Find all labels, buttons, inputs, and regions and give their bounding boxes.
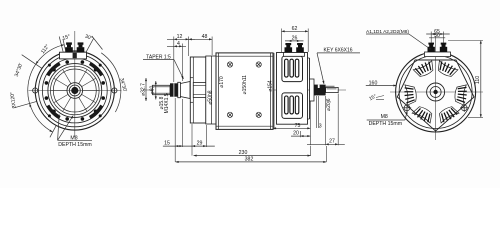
lug hole at 464.2 bbox=[460, 104, 468, 112]
arc arrows bbox=[61, 44, 64, 47]
upper brush box bbox=[282, 56, 303, 82]
dim 230 bbox=[194, 155, 311, 157]
dim 4 bbox=[167, 45, 186, 47]
svg-text:3X120°: 3X120° bbox=[9, 91, 17, 108]
through bolt at 258.7,64.5 bbox=[256, 62, 261, 67]
svg-text:34°30': 34°30' bbox=[14, 62, 24, 77]
svg-text:27: 27 bbox=[329, 139, 335, 145]
ventilation slots bbox=[455, 85, 466, 105]
right view cover pentagon bbox=[397, 60, 474, 131]
svg-text:⌀154: ⌀154 bbox=[268, 80, 274, 92]
CE terminal stud right bbox=[296, 43, 304, 53]
svg-text:⌀150h11: ⌀150h11 bbox=[242, 75, 248, 95]
left view dark clamp arcs bbox=[90, 64, 102, 76]
svg-text:50: 50 bbox=[434, 33, 440, 39]
svg-text:15: 15 bbox=[164, 141, 170, 147]
left view terminal block bbox=[60, 52, 87, 59]
right ext lines bbox=[273, 94, 338, 146]
left view terminal centre post bbox=[73, 53, 77, 58]
left view side screw hole right bbox=[112, 88, 117, 93]
svg-text:⌀20j6: ⌀20j6 bbox=[326, 98, 332, 111]
through bolt at 230,64.5 bbox=[227, 62, 232, 67]
lug hole at 407 bbox=[403, 104, 411, 112]
commutator end housing bbox=[277, 53, 308, 125]
svg-text:15°: 15° bbox=[368, 93, 377, 102]
bracket bearing hub bbox=[193, 83, 206, 98]
left view outer circle bbox=[35, 51, 114, 130]
right view stud left bbox=[428, 43, 435, 52]
dim 27 bbox=[307, 143, 345, 145]
svg-text:DEPTH 15mm: DEPTH 15mm bbox=[369, 121, 402, 127]
left view radial ribs bbox=[51, 66, 100, 115]
shaft nut bbox=[170, 83, 178, 96]
dim 50 bbox=[429, 37, 445, 39]
left view inner ring circle bbox=[48, 64, 102, 118]
stud angle line right short bbox=[86, 39, 94, 53]
left view vertical centerline bbox=[74, 31, 76, 137]
left view terminal stud right bbox=[77, 42, 85, 52]
left view hub circle bbox=[67, 83, 83, 99]
svg-text:⌀60: ⌀60 bbox=[150, 85, 156, 94]
left view rib outer circle bbox=[51, 66, 100, 115]
dim 20 bbox=[291, 135, 310, 137]
through bolt at 258.7,114.8 bbox=[256, 112, 261, 117]
left view side screw hole left bbox=[33, 88, 38, 93]
dim ext lines top bbox=[174, 37, 212, 83]
through bolt at 230,114.8 bbox=[227, 112, 232, 117]
left view outer dots bbox=[48, 64, 102, 118]
right view shaft circle bbox=[430, 87, 441, 98]
right view outer circle bbox=[396, 52, 476, 132]
svg-text:20: 20 bbox=[293, 131, 299, 137]
svg-text:110: 110 bbox=[475, 76, 481, 84]
yoke body bbox=[216, 53, 273, 129]
svg-text:62: 62 bbox=[292, 26, 298, 32]
right view inner circle bbox=[399, 56, 472, 129]
svg-text:M8: M8 bbox=[381, 114, 388, 120]
left view hub inner circle bbox=[69, 85, 80, 96]
CE right face bbox=[309, 58, 311, 119]
shaft taper bbox=[180, 82, 190, 99]
CE terminal base plate bbox=[284, 53, 305, 57]
adapter ring bbox=[206, 56, 216, 124]
dim 26 bbox=[285, 40, 304, 42]
key on shaft bbox=[326, 85, 335, 87]
svg-text:⌀170: ⌀170 bbox=[219, 76, 225, 88]
left view horizontal centerline bbox=[29, 90, 122, 92]
angular dimension arc right bbox=[101, 53, 121, 112]
svg-text:112°: 112° bbox=[40, 44, 51, 56]
dim 48 bbox=[189, 38, 212, 40]
left view yoke circle bbox=[42, 58, 107, 123]
shaft washer bbox=[178, 82, 181, 97]
stud angle line right bbox=[92, 36, 103, 50]
shaft thread section bbox=[153, 85, 171, 94]
lower brush box bbox=[282, 93, 303, 119]
section centerline bbox=[143, 89, 346, 91]
CE terminal stud left bbox=[285, 43, 293, 53]
dim 12 bbox=[167, 38, 195, 40]
left view flange circle bbox=[39, 54, 112, 127]
svg-text:KEY 6X6X16: KEY 6X6X16 bbox=[323, 47, 352, 53]
dim 110 bbox=[480, 41, 482, 118]
svg-text:75: 75 bbox=[295, 123, 301, 129]
svg-text:230: 230 bbox=[239, 150, 248, 156]
bearing boss bbox=[310, 79, 315, 101]
svg-text:DEPTH 15mm: DEPTH 15mm bbox=[58, 142, 91, 148]
right view terminal base bbox=[425, 52, 451, 57]
right view bearing circle bbox=[427, 83, 445, 101]
left view M8 leader bbox=[58, 115, 60, 141]
left view rib inner circle bbox=[53, 69, 96, 112]
bracket spigot bbox=[190, 77, 193, 79]
svg-text:M8: M8 bbox=[70, 135, 77, 141]
left view terminal stud left bbox=[65, 42, 73, 52]
right view horizontal centerline bbox=[390, 91, 483, 93]
dim 62 bbox=[282, 30, 309, 32]
angular dimension arc left bbox=[28, 45, 64, 132]
dim 65 bbox=[426, 33, 450, 35]
svg-text:26: 26 bbox=[292, 35, 298, 41]
dim 382 bbox=[176, 161, 327, 163]
dim 75 bbox=[273, 127, 310, 129]
right view shaft center bbox=[433, 90, 437, 94]
svg-text:⌀32.7: ⌀32.7 bbox=[141, 83, 147, 96]
right view stud right bbox=[440, 43, 447, 52]
left view rivet dots bbox=[45, 60, 105, 120]
svg-text:12: 12 bbox=[177, 34, 183, 40]
dia 60 dim bbox=[155, 81, 157, 100]
svg-text:M14X1.5: M14X1.5 bbox=[164, 93, 170, 113]
right view vertical centerline bbox=[435, 36, 437, 140]
svg-text:48: 48 bbox=[202, 34, 208, 40]
svg-text:29: 29 bbox=[197, 140, 203, 146]
shaft collar (black) bbox=[314, 85, 326, 96]
angular dim radial lines bbox=[13, 39, 66, 137]
left view shaft section bbox=[71, 87, 78, 94]
dim 15 29 line bbox=[163, 145, 215, 147]
stud angle line left bbox=[59, 37, 63, 53]
dia 32.7 dim bbox=[145, 78, 147, 101]
svg-text:382: 382 bbox=[245, 156, 254, 162]
svg-text:3: 3 bbox=[319, 124, 322, 130]
drive end bracket bbox=[190, 57, 206, 123]
svg-text:⌀50h8: ⌀50h8 bbox=[207, 90, 213, 104]
output shaft bbox=[326, 87, 339, 92]
